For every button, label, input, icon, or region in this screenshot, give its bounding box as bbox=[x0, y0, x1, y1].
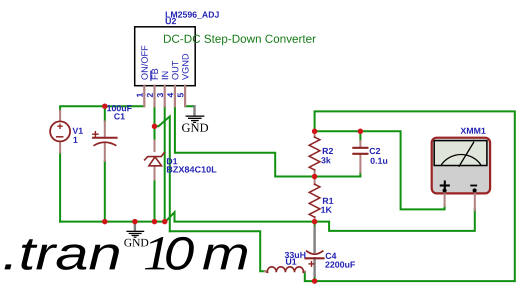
wire D1 line lower bbox=[154, 180, 156, 222]
wire Vout loop right side bbox=[315, 111, 515, 281]
capacitor C2 bbox=[353, 141, 387, 172]
wire pin 3 IN line bbox=[164, 106, 166, 222]
wire FB branch diagonal bbox=[155, 116, 170, 231]
junction R2 top bbox=[312, 129, 318, 135]
junction C1 top bbox=[102, 103, 108, 109]
spice directive .tran 10m bbox=[5, 239, 119, 270]
junction C4 bottom bbox=[312, 278, 318, 284]
wire bottom ground rail bbox=[60, 221, 165, 223]
wire pin 2 FB line upper bbox=[154, 106, 156, 141]
pin 5 VGND bbox=[178, 54, 189, 106]
pin 1 ON/OFF bbox=[137, 46, 148, 107]
junction C2 top bbox=[358, 129, 364, 135]
junction FB branch bbox=[152, 124, 158, 130]
wire V1 bottom drop bbox=[59, 153, 61, 222]
wire FB branch to inductor bbox=[170, 231, 265, 271]
wire C4 top drop bbox=[314, 222, 316, 227]
junction GND2 bbox=[132, 219, 138, 225]
wire bottom rail jog to XMM minus bbox=[315, 209, 475, 231]
wire C1 bottom drop bbox=[104, 161, 106, 222]
junction pin3 bottom bbox=[162, 219, 168, 225]
wire C1 top drop bbox=[104, 106, 106, 121]
capacitor C1 bbox=[93, 105, 132, 161]
voltage source V1 bbox=[50, 111, 83, 153]
ground GND1 near pin 5 bbox=[182, 106, 208, 132]
wire pin 4 OUT to divider midpoint bbox=[175, 106, 315, 177]
zener diode D1 bbox=[145, 141, 217, 180]
wire bottom rail hop over FB line bbox=[166, 212, 315, 221]
multimeter XMM1 bbox=[432, 128, 490, 211]
junction R1 bottom bbox=[312, 219, 318, 225]
wire Vout rail to C2 top and XMM plus bbox=[315, 131, 445, 209]
pin 3 IN bbox=[157, 72, 168, 107]
wire C2 top drop bbox=[359, 131, 361, 141]
inductor U1 bbox=[265, 252, 306, 272]
pin 4 OUT bbox=[167, 61, 178, 106]
pin 2 FB bbox=[147, 69, 158, 107]
junction C1 bottom bbox=[102, 219, 108, 225]
junction R1 R2 middle bbox=[312, 174, 318, 180]
wire top rail from V1 plus to pin 1 bbox=[60, 106, 144, 110]
wire divider midpoint to C2 bottom bbox=[315, 172, 361, 177]
wire pin 5 to ground bbox=[185, 105, 194, 107]
wire inductor right end drop bbox=[305, 272, 315, 281]
resistor R1 bbox=[309, 177, 333, 222]
junction D1 bottom bbox=[152, 219, 158, 225]
resistor R2 bbox=[309, 131, 333, 176]
op-amp-style IC U2 LM2596_ADJ bbox=[135, 12, 316, 86]
ground GND2 on bottom rail bbox=[124, 222, 148, 247]
capacitor C4 bbox=[306, 227, 356, 276]
wire C4 bottom stub bbox=[314, 276, 316, 281]
